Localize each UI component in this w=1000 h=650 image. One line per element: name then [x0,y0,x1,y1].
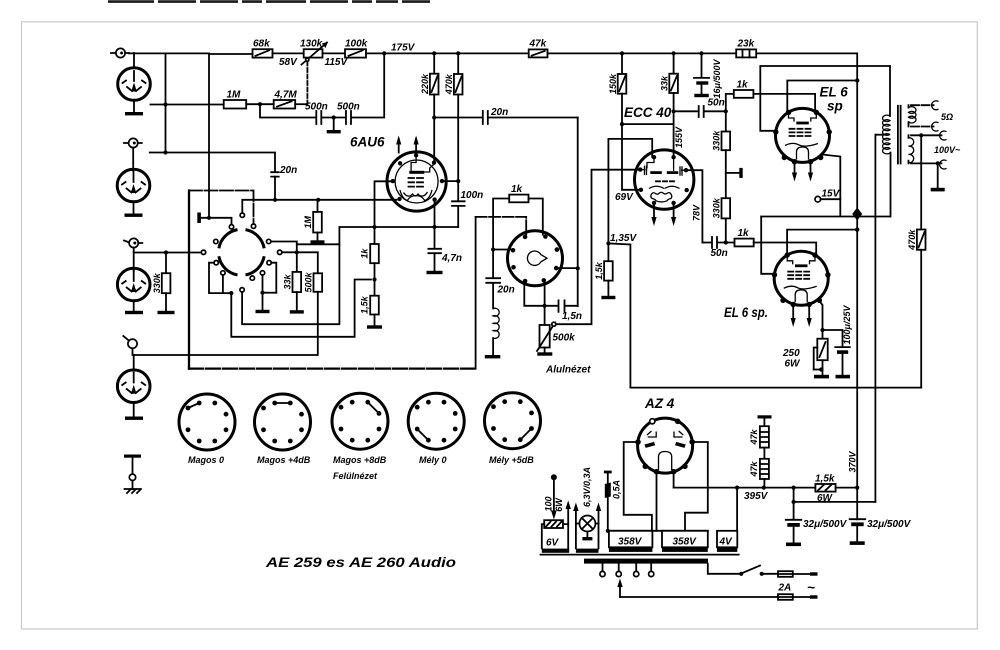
resistor 500k (switch) [304,271,322,355]
mains terminals [600,564,654,577]
switch wafer Mely +5dB [485,393,541,465]
resistor 330k (upper) [712,111,730,198]
dashed wire to volume switch [476,217,527,235]
svg-text:1,5n: 1,5n [562,311,582,322]
svg-text:358V: 358V [673,537,698,548]
svg-text:500k: 500k [553,333,576,344]
potentiometer 500k (Alulnezet) [537,283,575,356]
resistor 470k (feedback) [907,135,926,387]
svg-text:500n: 500n [337,102,360,113]
ECC40 right plate wire, 78V [688,170,702,242]
capacitor 20n (input coupling) [271,165,297,200]
svg-text:330k: 330k [152,272,162,293]
grid drop [814,94,816,111]
395V to transformer CT [794,501,876,503]
svg-text:358V: 358V [618,537,643,548]
switch contacts [201,213,282,292]
svg-text:20n: 20n [497,285,515,296]
resistor 1k (cathode) [359,244,378,296]
resistor 33k (ECC40 plate) [659,53,678,157]
resistor 1,5k 6W [815,474,859,505]
wire 4.7M to wiper dashes [295,103,307,105]
wire 68k-130k [273,52,304,54]
grid feedback loop [608,139,652,244]
pentode EL6 (upper) [773,108,832,164]
B+ rail [548,53,858,519]
input jack J4 (pickup) [123,336,137,348]
svg-text:50n: 50n [711,248,728,259]
wire to left contact [493,249,511,251]
svg-text:Magos +8dB: Magos +8dB [333,455,387,465]
fuse 2A (line 1) [778,571,818,595]
ground V2 [133,202,135,214]
svg-text:130k: 130k [300,39,323,50]
resistor 150k [608,53,639,189]
svg-text:2A: 2A [778,583,792,594]
mains selector knob [543,474,564,519]
svg-text:1,35V: 1,35V [610,233,637,244]
svg-text:0,5A: 0,5A [611,480,621,499]
svg-text:~: ~ [807,580,815,595]
capacitor 32u/500V (first) [786,488,848,546]
input jack J1 [111,48,129,57]
wire 150k to plate column [622,123,674,125]
ground (switch net) [262,293,264,310]
svg-text:Magos 0: Magos 0 [188,455,224,465]
secondary 100V [909,131,962,191]
resistor 1,5k (feedback divider) [594,243,616,299]
wire 4V winding [736,488,738,531]
pentode 6AU6 [387,152,446,211]
svg-text:Alulnézet: Alulnézet [545,365,591,376]
cathode wire to 250 ohm [821,303,823,339]
scan artifact top edge [108,0,430,3]
resistor 330k (input) [152,253,175,315]
svg-text:ECC 40: ECC 40 [624,105,672,120]
svg-text:33k: 33k [659,75,669,91]
winding top line [608,530,708,532]
mains input arrow [617,579,622,598]
switch wafer Magos 0 [179,394,235,465]
resistor 100 6W (mains dropper) [544,520,563,528]
wire 1,35V to feedback column [608,243,630,387]
anode arrows above tube [396,136,419,153]
resistor 1k (upper, EL6 grid) [726,80,815,112]
svg-text:20n: 20n [279,165,297,176]
svg-text:Magos +4dB: Magos +4dB [257,455,311,465]
svg-text:4V: 4V [719,537,734,548]
transformer core [898,106,901,164]
winding 358V (first) [609,531,653,552]
AZ4 filament wires [673,472,675,488]
cathode bar tap [197,213,231,225]
capacitor 32u/500V (second) [850,519,912,545]
svg-text:115V: 115V [325,57,349,68]
resistor 470k (screen) [444,53,463,181]
svg-text:32μ/500V: 32μ/500V [867,519,912,530]
capacitor 20n (coupling to volume) [483,107,508,124]
node dot [163,102,167,106]
wire jack1 to grid rail [129,53,209,152]
svg-text:330k: 330k [712,197,722,218]
svg-text:16μ/500V: 16μ/500V [712,59,722,99]
winding 4V [717,531,737,552]
cathode line [339,226,458,228]
wire 68k rail to switch column [209,54,253,218]
fuse 0,5A [604,471,621,533]
svg-text:Mély +5dB: Mély +5dB [489,455,534,465]
ground V3 [133,301,135,311]
wire plate pin [444,180,458,182]
capacitor 500n (first) [305,102,328,125]
feedback bottom line [630,387,921,389]
resistor 1k (to volume pot) [493,184,543,278]
wire top contact to grid line [242,200,396,213]
capacitor 1,5n [524,283,582,322]
svg-text:AE 259 es AE 260 Audio: AE 259 es AE 260 Audio [265,555,456,570]
resistor 1,5k (cathode) [359,295,382,328]
svg-text:1,5k: 1,5k [594,261,604,280]
6V winding frame [542,501,571,553]
wire grid corner [375,181,391,244]
svg-text:500n: 500n [305,102,328,113]
resistor 250 6W [782,339,829,379]
svg-text:150k: 150k [608,73,618,94]
svg-text:1M: 1M [303,215,313,228]
wiper wire to ECC40 grid [556,170,639,325]
svg-text:500k: 500k [304,271,314,292]
plate wire to transformer top [760,66,890,131]
AZ4 plate wires [624,442,652,531]
output transformer primary [875,66,890,502]
wire upper-right contact [271,242,297,253]
triode V2 (input) [117,148,150,202]
svg-text:20n: 20n [490,107,508,118]
wire J3 to switch [134,248,204,253]
svg-text:1,5k: 1,5k [359,295,369,314]
anode rail [761,216,890,218]
capacitor 50n (upper) [674,98,728,118]
fuse (line 2) [620,594,818,600]
svg-text:100μ/25V: 100μ/25V [842,305,852,345]
resistor 47k [529,39,548,58]
switch wafer Magos +4dB [255,394,311,465]
inductor (tone coil) [485,308,501,358]
svg-text:175V: 175V [391,43,416,54]
svg-text:470k: 470k [907,229,917,251]
wire 100k to 47k rail, 175V [366,52,529,54]
svg-text:sp: sp [827,99,843,114]
triode V4 (input) [117,355,150,403]
pentode EL6sp (lower) [772,251,831,307]
svg-text:47k: 47k [529,39,547,50]
chassis/earth terminal bottom-left [124,455,141,494]
lower-right contact wires [263,263,277,293]
input jack J3 [124,238,142,247]
big loop box left/bottom [188,191,190,369]
pilot lamp [573,467,601,553]
wire right contact to 33k/500k [282,252,318,273]
svg-text:4,7n: 4,7n [441,253,462,264]
mains switch [708,564,778,576]
svg-text:47k: 47k [749,461,759,478]
395V rail [674,487,816,489]
svg-text:100n: 100n [461,190,484,201]
screen line upper [787,81,857,111]
svg-text:4,7M: 4,7M [274,90,298,101]
capacitor 500n (second) [337,102,360,125]
capacitor 100u/25V [823,305,852,379]
svg-text:470k: 470k [444,73,454,95]
svg-text:68k: 68k [253,39,270,50]
lower-left contact loop to cathode junction [209,263,371,337]
terminal 15V [815,189,841,203]
svg-text:5Ω: 5Ω [941,112,953,122]
inner loop wire [242,227,339,324]
rectifier AZ4 [635,418,695,474]
wire tube1 line [151,104,224,106]
svg-text:370V: 370V [847,450,857,472]
svg-text:32μ/500V: 32μ/500V [803,519,848,530]
svg-text:78V: 78V [691,204,701,221]
svg-text:1k: 1k [737,80,749,91]
resistor 1k (lower, EL6sp grid) [735,228,817,252]
switch wafer Magos +8dB [332,393,388,481]
secondary 5 ohm [909,101,954,131]
heater arrows ECC40 [651,206,676,227]
transformer core lines [541,554,739,556]
svg-text:15V: 15V [822,189,841,200]
svg-text:33k: 33k [282,274,292,290]
svg-text:250: 250 [782,348,800,359]
winding 358V (second) [662,531,708,552]
triode V1 (input) [118,53,151,100]
capacitor 50n (lower) [702,237,734,259]
potentiometer 130k [300,39,328,105]
bleeder 47k + 47k [749,415,772,487]
svg-text:155V: 155V [674,126,684,148]
wire J4 to 500k [133,348,317,355]
wire feedback box top to contact [189,191,254,225]
svg-text:1k: 1k [738,228,750,239]
input jack J2 [124,138,142,147]
svg-text:58V: 58V [279,57,298,68]
svg-text:100: 100 [543,496,553,511]
switch wafer Mely 0 [408,393,464,465]
svg-text:50n: 50n [708,98,725,109]
svg-text:6W: 6W [785,359,802,370]
heater arrows EL6sp [791,307,812,327]
svg-text:AZ 4: AZ 4 [644,396,675,411]
svg-text:330k: 330k [712,130,722,151]
resistor 100k [345,39,368,58]
svg-text:6AU6: 6AU6 [350,135,385,150]
wire 130k-100k [323,52,346,54]
svg-text:1k: 1k [359,248,369,259]
resistor 4.7M [274,90,298,109]
ground V1 [133,100,135,112]
svg-text:EL 6 sp.: EL 6 sp. [724,305,768,320]
wire 1M-4.7M [246,103,274,105]
capacitor 20n (volume) [486,278,514,308]
resistor 33k (switch) [282,252,303,313]
junction diamond 370V [852,208,862,221]
svg-text:1M: 1M [227,90,242,101]
svg-text:1,5k: 1,5k [815,474,835,485]
svg-text:395V: 395V [744,491,769,502]
wire x578 column [577,118,579,307]
capacitor 16u/500V [694,53,722,98]
svg-text:Mély 0: Mély 0 [419,455,447,465]
resistor 330k (lower) [712,197,730,244]
resistor 23k [736,39,756,58]
rotary volume switch S2 [508,231,563,286]
svg-text:6,3V/0,3A: 6,3V/0,3A [582,467,592,507]
svg-text:1k: 1k [511,184,523,195]
plate wire lower [761,217,773,274]
svg-text:47k: 47k [749,429,759,446]
rotary tone switch S1 (bottom view) [219,230,264,275]
svg-text:6V: 6V [546,538,560,549]
wire 20n line [434,117,482,119]
cathode to 15V column [822,155,840,217]
resistor 68k [253,39,273,58]
svg-text:Felülnézet: Felülnézet [333,471,378,481]
svg-text:69V: 69V [615,192,634,203]
resistor 1M (switch) [303,200,325,244]
wire between 500n caps [322,117,345,119]
screen tap bar [726,168,743,178]
node dot [163,150,167,154]
wire to 20n [150,153,275,172]
svg-text:EL 6: EL 6 [820,85,849,100]
capacitor 4,7n [427,227,463,274]
triode V3 (input) [117,253,150,301]
wire 500n branch [260,104,315,117]
svg-text:220k: 220k [420,73,430,95]
resistor 1M [224,90,247,109]
capacitor 100n [452,181,483,227]
double triode ECC40 [635,150,694,209]
resistor 220k [420,53,439,162]
contact stub [222,275,224,293]
svg-text:6W: 6W [554,497,564,512]
ground between 500n [333,118,335,131]
svg-text:100V~: 100V~ [934,145,961,155]
connector to inner loop [297,243,340,245]
svg-text:23k: 23k [737,39,755,50]
heater arrows EL6 [792,164,813,182]
screen line lower [787,230,857,254]
ground V4 [133,403,135,417]
svg-text:100k: 100k [345,39,368,50]
wire 500n up to 175V rail [352,53,384,117]
